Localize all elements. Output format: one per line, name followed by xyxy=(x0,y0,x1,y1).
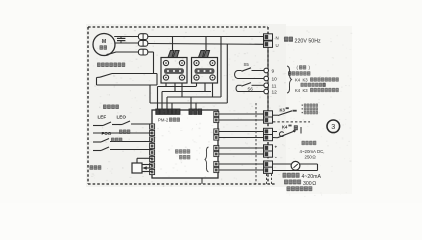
svg-text:K3: K3 xyxy=(303,77,309,82)
svg-text:12: 12 xyxy=(272,90,278,96)
svg-text:K3: K3 xyxy=(303,88,309,93)
svg-text:Ω: Ω xyxy=(312,181,316,187)
svg-text:+: + xyxy=(275,145,278,150)
svg-text:250: 250 xyxy=(305,154,313,159)
svg-text:4~20mA: 4~20mA xyxy=(302,174,322,180)
svg-text:LEO: LEO xyxy=(117,115,127,120)
svg-text:11: 11 xyxy=(272,84,277,90)
svg-text:N: N xyxy=(276,35,279,40)
svg-text:300: 300 xyxy=(303,181,312,187)
svg-text:10: 10 xyxy=(272,77,278,83)
svg-text:3: 3 xyxy=(331,122,335,131)
svg-text:K4: K4 xyxy=(295,77,301,82)
svg-text:9: 9 xyxy=(272,69,275,75)
svg-text:-: - xyxy=(275,155,277,161)
svg-text:4~20mA DC,: 4~20mA DC, xyxy=(300,149,325,154)
svg-text:U: U xyxy=(276,43,279,48)
svg-text:M: M xyxy=(102,39,106,45)
svg-text:K4: K4 xyxy=(295,88,301,93)
svg-text:POO: POO xyxy=(102,131,112,136)
svg-text:LEF: LEF xyxy=(98,115,107,120)
svg-text:220V 50Hz: 220V 50Hz xyxy=(295,38,322,44)
